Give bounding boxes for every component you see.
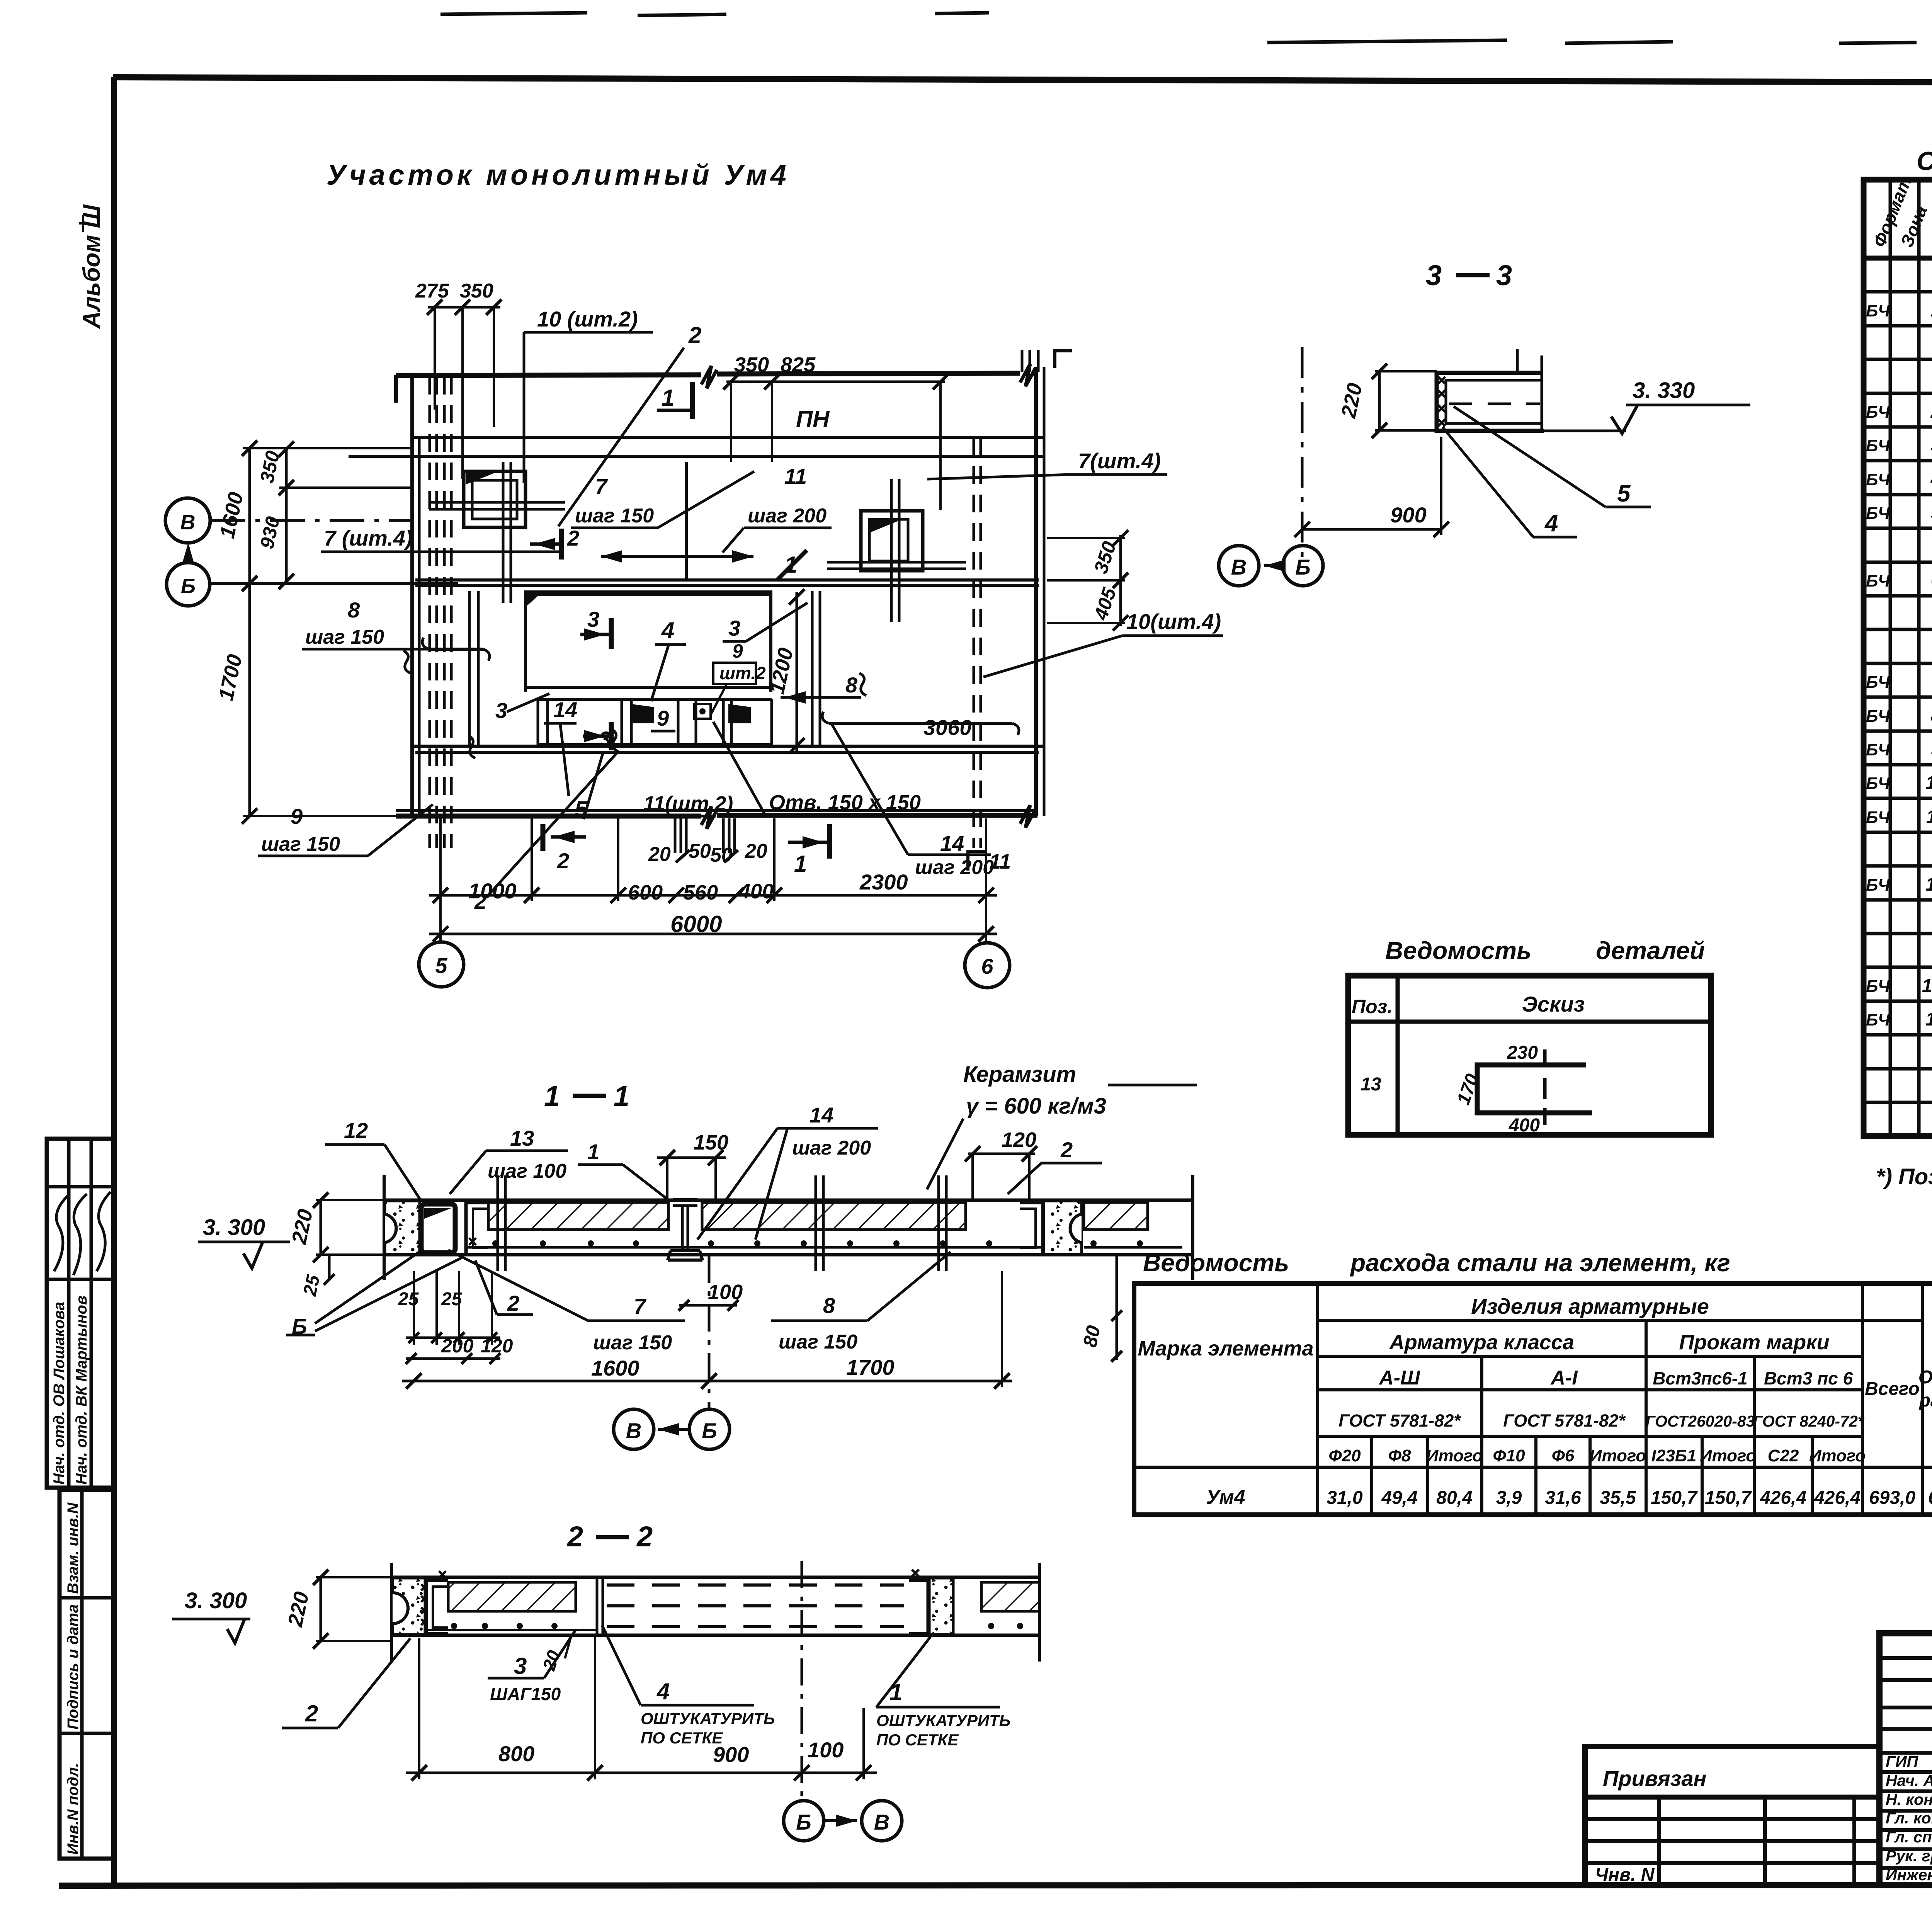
svg-text:I23Б1: I23Б1 — [1651, 1446, 1697, 1465]
svg-text:Прокат марки: Прокат марки — [1679, 1331, 1829, 1354]
svg-text:25: 25 — [398, 1289, 419, 1310]
svg-text:150,7: 150,7 — [1651, 1488, 1698, 1508]
svg-text:Инв.N подл.: Инв.N подл. — [65, 1763, 82, 1855]
svg-text:200: 200 — [441, 1335, 474, 1357]
svg-text:БЧ: БЧ — [1866, 808, 1890, 827]
svg-text:БЧ: БЧ — [1866, 470, 1890, 489]
svg-text:31,6: 31,6 — [1545, 1488, 1581, 1508]
svg-text:9: 9 — [732, 640, 743, 662]
leader 8 shag150 left — [302, 648, 410, 651]
svg-text:9: 9 — [1931, 739, 1932, 760]
rebar hooks left — [429, 648, 483, 651]
formwork cell band — [538, 698, 772, 701]
corner mark 11 lower right — [968, 851, 987, 871]
svg-text:10(шт.4): 10(шт.4) — [1126, 609, 1221, 634]
svg-text:426,4: 426,4 — [1760, 1488, 1806, 1508]
grid bubble 6 — [965, 943, 1010, 988]
level 3.300 2-2 — [172, 1618, 250, 1621]
svg-text:Изделия арматурные: Изделия арматурные — [1471, 1294, 1709, 1318]
svg-text:3. 330: 3. 330 — [1633, 378, 1695, 403]
plan mid lines above opening — [415, 578, 1039, 582]
svg-text:100: 100 — [808, 1738, 844, 1762]
hatch band 3 — [1084, 1202, 1148, 1230]
svg-text:шаг 150: шаг 150 — [593, 1332, 672, 1354]
svg-text:11: 11 — [1926, 807, 1932, 827]
signatures squiggles — [54, 1192, 111, 1275]
leader 7sht4 left — [321, 551, 413, 553]
svg-text:4: 4 — [661, 617, 674, 643]
svg-text:Ведомость: Ведомость — [1143, 1249, 1289, 1277]
svg-text:4: 4 — [1544, 510, 1558, 537]
section cut 1 top — [690, 382, 695, 419]
svg-text:шаг 200: шаг 200 — [748, 505, 827, 527]
svg-text:1: 1 — [784, 552, 797, 578]
svg-text:3: 3 — [514, 1653, 527, 1679]
svg-text:13: 13 — [1361, 1074, 1381, 1095]
dim 275 350 — [428, 306, 500, 309]
axis line B (lower) — [211, 582, 458, 585]
svg-text:120: 120 — [481, 1335, 513, 1357]
svg-text:ПО СЕТКЕ: ПО СЕТКЕ — [876, 1731, 959, 1749]
svg-text:5: 5 — [575, 796, 588, 822]
svg-text:Подпись и дата: Подпись и дата — [65, 1604, 82, 1730]
channel left 2-2 — [426, 1580, 448, 1634]
arrow from B up to V — [187, 547, 190, 563]
specification table grid — [1864, 180, 1932, 1136]
section 3-3 dim 900 — [1302, 528, 1441, 531]
svg-text:БЧ: БЧ — [1866, 301, 1890, 320]
svg-text:БЧ: БЧ — [1866, 571, 1890, 590]
svg-text:2: 2 — [636, 1520, 653, 1553]
slab outline section 2-2 — [391, 1576, 1039, 1579]
svg-text:БЧ: БЧ — [1866, 436, 1890, 455]
label 3/9/sht2 — [723, 640, 746, 643]
x marks top — [439, 1570, 919, 1578]
dim 25 left — [328, 1255, 331, 1279]
svg-text:Всего: Всего — [1865, 1379, 1920, 1399]
svg-text:400: 400 — [1509, 1115, 1540, 1136]
channel right 2-2 — [909, 1580, 928, 1634]
svg-text:Керамзит: Керамзит — [963, 1062, 1076, 1087]
svg-text:Взам. инв.N: Взам. инв.N — [65, 1502, 82, 1594]
dim 220 2-2 — [320, 1577, 322, 1641]
svg-text:шаг 200: шаг 200 — [915, 856, 994, 879]
section 3-3 label 5 — [1605, 506, 1651, 509]
left wall verticals — [410, 375, 414, 816]
left end block 2-2 — [393, 1578, 425, 1634]
rebar dots — [492, 1240, 498, 1247]
label 14 shag200 leaders — [777, 1127, 878, 1130]
svg-text:ПО СЕТКЕ: ПО СЕТКЕ — [641, 1729, 723, 1747]
plan top beam line — [396, 373, 1037, 376]
underlines for labels — [0, 0, 2, 2]
svg-text:Вст3 пс 6: Вст3 пс 6 — [1764, 1368, 1853, 1388]
svg-text:ШАГ150: ШАГ150 — [490, 1684, 561, 1704]
level 3.300 — [198, 1241, 290, 1243]
svg-text:5: 5 — [435, 953, 447, 978]
svg-text:Ф6: Ф6 — [1552, 1446, 1575, 1465]
channel left — [466, 1202, 488, 1255]
svg-text:деталей: деталей — [1596, 937, 1705, 964]
svg-text:Спецификация участка монол: Спецификация участка монолитного Ум4 — [1917, 146, 1932, 176]
svg-text:Итого: Итого — [1426, 1446, 1483, 1465]
svg-text:400: 400 — [738, 880, 774, 903]
svg-text:А-I: А-I — [1550, 1367, 1578, 1389]
svg-text:Нач. отд. ВК Мартынов: Нач. отд. ВК Мартынов — [73, 1296, 90, 1485]
svg-text:13: 13 — [510, 1126, 534, 1150]
svg-text:Б: Б — [796, 1810, 811, 1834]
svg-text:Рук. гр.: Рук. гр. — [1886, 1847, 1932, 1865]
svg-text:2: 2 — [507, 1291, 519, 1315]
rebar line with double arrows — [601, 555, 753, 558]
label 7 shag150 — [588, 1320, 685, 1322]
rebar S-break marks — [403, 651, 866, 758]
svg-text:1: 1 — [614, 1080, 629, 1112]
dashed infill panel — [607, 1583, 904, 1587]
hatch block 2-2 — [448, 1582, 576, 1611]
dim 350 825 — [726, 381, 945, 383]
plan lower band lines — [411, 745, 1045, 748]
centerline — [708, 1256, 711, 1408]
svg-text:8: 8 — [348, 598, 360, 622]
svg-text:2: 2 — [1930, 401, 1932, 422]
svg-text:Арматура класса: Арматура класса — [1389, 1331, 1574, 1354]
svg-text:900: 900 — [1390, 503, 1426, 527]
scan artifact dashes top — [440, 13, 1932, 46]
svg-text:7 (шт.4): 7 (шт.4) — [324, 526, 413, 550]
section 3-3 axis bubbles — [1219, 546, 1259, 586]
left margin stamp: lower inv table — [60, 1490, 114, 1859]
bottom dim line 2 — [429, 933, 997, 935]
svg-text:ОШТУКАТУРИТЬ: ОШТУКАТУРИТЬ — [641, 1709, 775, 1728]
svg-text:2: 2 — [567, 526, 579, 550]
svg-text:230: 230 — [1507, 1043, 1538, 1063]
beam end stub — [394, 375, 398, 403]
svg-text:6: 6 — [1931, 570, 1932, 591]
svg-text:Н. контр.: Н. контр. — [1886, 1791, 1932, 1808]
svg-text:Эскиз: Эскиз — [1522, 992, 1585, 1016]
svg-text:5: 5 — [1617, 480, 1631, 507]
svg-text:Вст3пс6-1: Вст3пс6-1 — [1653, 1368, 1747, 1388]
hatch band 2 — [702, 1202, 966, 1230]
right wall verticals — [1034, 367, 1038, 816]
svg-text:В: В — [180, 511, 196, 534]
small opening 150x150 with dot — [694, 704, 711, 719]
svg-text:11(шт.2): 11(шт.2) — [643, 792, 733, 815]
stirrup pairs — [497, 1175, 499, 1271]
svg-text:10: 10 — [1925, 773, 1932, 793]
svg-text:80: 80 — [1079, 1323, 1104, 1349]
svg-text:14: 14 — [1925, 1009, 1932, 1030]
svg-text:Б: Б — [292, 1314, 307, 1338]
section 3-3 level 3.330 — [1626, 404, 1750, 406]
triple bars to dims — [674, 818, 677, 853]
dims 800 900 100 — [406, 1772, 877, 1774]
svg-text:БЧ: БЧ — [1866, 707, 1890, 726]
joint verticals — [596, 1578, 599, 1634]
svg-text:14: 14 — [553, 697, 577, 722]
svg-text:2: 2 — [1060, 1138, 1073, 1162]
svg-text:7: 7 — [595, 474, 608, 498]
svg-text:7(шт.4): 7(шт.4) — [1078, 449, 1161, 473]
svg-text:Участок монолитный Ум4: Участок монолитный Ум4 — [327, 159, 786, 191]
svg-text:Итого: Итого — [1590, 1446, 1646, 1465]
svg-text:9: 9 — [291, 804, 303, 828]
svg-text:1: 1 — [889, 1679, 902, 1705]
svg-text:1: 1 — [544, 1080, 560, 1112]
section 2-2 axis bubbles — [784, 1801, 824, 1841]
svg-text:25: 25 — [441, 1289, 463, 1310]
square tube — [421, 1204, 455, 1253]
slab outline section 1-1 — [384, 1199, 1193, 1202]
section cut 3 arrow mid — [609, 618, 614, 649]
label 1 2-2 — [876, 1706, 1000, 1709]
svg-text:Привязан: Привязан — [1603, 1766, 1706, 1791]
svg-text:150: 150 — [694, 1131, 728, 1154]
rebar 3060 line — [829, 722, 1012, 725]
bottom dim line 1 — [429, 894, 997, 897]
left end block — [385, 1201, 420, 1254]
svg-text:Ф10: Ф10 — [1493, 1446, 1525, 1465]
svg-text:Чнв. N: Чнв. N — [1595, 1865, 1655, 1885]
svg-text:7: 7 — [634, 1294, 647, 1318]
svg-text:560: 560 — [683, 881, 718, 904]
svg-text:12: 12 — [1925, 874, 1932, 895]
section 3-3 label 4 — [1533, 536, 1577, 539]
svg-text:расход: расход — [1918, 1390, 1932, 1411]
svg-text:3: 3 — [1496, 259, 1512, 291]
label 2 leader 2-2 — [282, 1727, 338, 1730]
svg-text:3. 300: 3. 300 — [185, 1588, 247, 1613]
label 4 leader — [655, 643, 686, 646]
monolithic opening top edge — [525, 590, 772, 596]
svg-text:С22: С22 — [1768, 1446, 1799, 1465]
svg-text:350: 350 — [460, 280, 493, 302]
svg-text:ПН: ПН — [796, 406, 830, 432]
svg-text:120: 120 — [1002, 1128, 1036, 1151]
svg-text:Нач. АСО: Нач. АСО — [1886, 1772, 1932, 1789]
svg-text:2: 2 — [688, 322, 701, 348]
svg-text:275: 275 — [415, 280, 449, 302]
svg-text:Отв. 150 х 150: Отв. 150 х 150 — [769, 791, 921, 814]
svg-text:8: 8 — [823, 1293, 835, 1318]
svg-text:14: 14 — [940, 831, 964, 855]
svg-text:5: 5 — [1931, 503, 1932, 523]
svg-text:825: 825 — [781, 353, 816, 376]
section 3-3 dim 220 — [1378, 371, 1381, 430]
svg-text:БЧ: БЧ — [1866, 740, 1890, 759]
svg-text:2: 2 — [566, 1520, 583, 1553]
svg-text:БЧ: БЧ — [1866, 504, 1890, 523]
svg-text:8: 8 — [1931, 706, 1932, 726]
left dim stack outer — [248, 448, 251, 816]
title block outer — [1879, 1633, 1932, 1885]
dim 150 — [657, 1156, 726, 1159]
dim 1200 vertical — [796, 592, 798, 751]
section 3-3 centerline — [1301, 347, 1304, 560]
parts list table — [1348, 976, 1711, 1135]
svg-text:3: 3 — [587, 607, 599, 631]
svg-text:Ф8: Ф8 — [1388, 1446, 1411, 1465]
label 3 lower-left leader — [507, 694, 549, 712]
svg-text:шаг 150: шаг 150 — [261, 833, 340, 855]
svg-text:Инженер: Инженер — [1886, 1866, 1932, 1884]
svg-text:3: 3 — [495, 698, 507, 723]
svg-text:693,0: 693,0 — [1869, 1488, 1915, 1508]
labels leaders upper — [325, 1143, 384, 1146]
dim 200 120 — [406, 1357, 500, 1360]
section cut 1 lower — [827, 824, 832, 859]
poz 13 sketch (bent plate) — [1477, 1065, 1592, 1113]
svg-text:расхода стали на элемент,: расхода стали на элемент, кг — [1350, 1249, 1730, 1277]
label 14 leader — [544, 722, 577, 725]
label 3 shag150 2-2 — [488, 1677, 544, 1680]
svg-text:ГОСТ 5781-82*: ГОСТ 5781-82* — [1503, 1411, 1626, 1430]
left margin stamp: upper signature table — [47, 1139, 114, 1488]
svg-text:1600: 1600 — [591, 1356, 639, 1380]
svg-text:ОШТУКАТУРИТЬ: ОШТУКАТУРИТЬ — [876, 1711, 1011, 1730]
svg-text:Общий: Общий — [1918, 1367, 1932, 1388]
right rebar mesh square — [861, 511, 923, 571]
svg-text:ГОСТ 8240-72*: ГОСТ 8240-72* — [1753, 1412, 1864, 1430]
bottom border line — [59, 1885, 1932, 1886]
axis line V (upper) dash-dot — [211, 519, 412, 522]
svg-text:49,4: 49,4 — [1381, 1488, 1417, 1508]
plan under-beam lines — [411, 436, 1045, 439]
channel right — [1020, 1202, 1043, 1255]
svg-text:В: В — [626, 1418, 641, 1443]
grid bubble 5 — [419, 942, 464, 987]
dim 100 — [679, 1304, 737, 1307]
dim 80 — [1116, 1255, 1118, 1360]
svg-text:*) Поз. 13: *) Поз. 13 — [1876, 1164, 1932, 1189]
svg-text:4: 4 — [1930, 469, 1932, 490]
svg-text:БЧ: БЧ — [1866, 774, 1890, 793]
section 1-1 axis bubbles — [614, 1409, 654, 1449]
svg-text:ГИП: ГИП — [1886, 1753, 1919, 1770]
svg-text:20: 20 — [648, 843, 671, 866]
svg-text:Ум4: Ум4 — [1206, 1486, 1245, 1509]
svg-text:Ф20: Ф20 — [1328, 1446, 1361, 1465]
svg-text:В: В — [1231, 555, 1247, 579]
svg-text:3. 300: 3. 300 — [203, 1215, 265, 1240]
label 7 shag150 underline+leader — [571, 527, 658, 529]
axis bubble B — [167, 563, 210, 606]
steel consumption table grid — [1134, 1284, 1932, 1515]
label B leaders — [315, 1252, 419, 1323]
svg-text:2300: 2300 — [859, 870, 908, 894]
svg-text:7: 7 — [1931, 672, 1932, 692]
svg-text:ГОСТ 5781-82*: ГОСТ 5781-82* — [1338, 1411, 1461, 1430]
left border line — [111, 77, 117, 1886]
bottom dim extension verticals — [439, 818, 442, 941]
otv 150x150 leader — [766, 815, 886, 818]
label 8 right arrow — [781, 696, 837, 699]
dim 120 — [968, 1153, 1035, 1155]
leader label 2 top — [558, 348, 684, 526]
svg-text:γ = 600 кг/м3: γ = 600 кг/м3 — [966, 1094, 1106, 1119]
svg-text:БЧ: БЧ — [1866, 977, 1890, 996]
svg-text:БЧ: БЧ — [1866, 876, 1890, 895]
svg-text:Поз.: Поз. — [1352, 996, 1393, 1017]
leader 10sht4 — [1122, 634, 1223, 637]
svg-text:800: 800 — [498, 1742, 534, 1766]
section cut 2 (in plan) — [559, 529, 564, 560]
svg-text:3060: 3060 — [923, 715, 972, 740]
svg-text:Б: Б — [1295, 555, 1311, 579]
svg-text:150,7: 150,7 — [1705, 1488, 1752, 1508]
svg-text:БЧ: БЧ — [1866, 1010, 1890, 1029]
svg-text:БЧ: БЧ — [1866, 403, 1890, 422]
label 5 leader — [583, 753, 603, 819]
label 9 underline — [651, 730, 675, 733]
svg-text:Марка элемента: Марка элемента — [1138, 1337, 1313, 1360]
section cut 3 lower — [609, 722, 614, 750]
svg-text:3: 3 — [599, 727, 611, 751]
svg-text:6000: 6000 — [670, 911, 722, 937]
dims 25 25 — [413, 1271, 415, 1345]
svg-text:БЧ: БЧ — [1866, 673, 1890, 692]
svg-text:13*: 13* — [1922, 976, 1932, 996]
svg-text:50: 50 — [689, 840, 711, 862]
svg-text:3,9: 3,9 — [1496, 1488, 1522, 1508]
label 2 lower slant — [490, 752, 617, 893]
label 2 right — [1041, 1162, 1102, 1165]
svg-text:350: 350 — [734, 353, 769, 376]
svg-text:100: 100 — [708, 1281, 743, 1304]
privyazan box — [1585, 1747, 1879, 1885]
svg-text:1: 1 — [587, 1139, 599, 1164]
leader 9 shag150 lower left — [258, 855, 368, 857]
svg-text:600: 600 — [628, 881, 663, 904]
svg-text:Ведомость: Ведомость — [1385, 937, 1531, 964]
right vert dims 405 350 — [1119, 535, 1122, 626]
mid stirrup pairs — [468, 591, 471, 745]
svg-text:3: 3 — [728, 616, 740, 640]
svg-text:1000: 1000 — [468, 879, 517, 903]
I-beam — [673, 1198, 697, 1202]
svg-text:50: 50 — [710, 844, 733, 866]
svg-text:1: 1 — [1931, 300, 1932, 321]
svg-text:20: 20 — [745, 840, 767, 862]
label 14 shag200 lower right leader — [908, 854, 991, 856]
svg-text:693,0: 693,0 — [1928, 1488, 1932, 1508]
svg-text:80,4: 80,4 — [1436, 1488, 1472, 1508]
svg-text:1700: 1700 — [846, 1355, 895, 1379]
svg-text:11: 11 — [784, 464, 807, 488]
svg-text:14: 14 — [810, 1103, 833, 1127]
svg-text:3: 3 — [1426, 259, 1442, 291]
svg-text:12: 12 — [344, 1118, 368, 1143]
svg-text:3: 3 — [1931, 435, 1932, 456]
svg-text:шаг 150: шаг 150 — [575, 505, 654, 527]
leader 10sht2 — [524, 331, 653, 334]
svg-text:4: 4 — [656, 1679, 670, 1704]
top border line — [113, 77, 1932, 84]
svg-text:А-Ш: А-Ш — [1378, 1367, 1420, 1389]
label 20 leader — [565, 1636, 571, 1658]
svg-text:8: 8 — [845, 673, 858, 697]
svg-text:426,4: 426,4 — [1814, 1488, 1861, 1508]
svg-text:шаг 100: шаг 100 — [488, 1160, 566, 1182]
svg-text:1: 1 — [662, 385, 674, 411]
leader 7sht4 right — [927, 474, 1070, 479]
label 4 2-2 — [641, 1704, 754, 1707]
section 3-3 channel beam — [1437, 373, 1544, 431]
svg-text:10 (шт.2): 10 (шт.2) — [537, 307, 638, 331]
svg-text:Гл. спец.: Гл. спец. — [1886, 1828, 1932, 1846]
svg-text:шт.2: шт.2 — [719, 663, 766, 683]
